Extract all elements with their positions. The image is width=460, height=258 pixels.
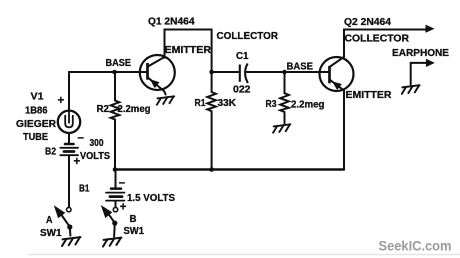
svg-text:BASE: BASE (287, 62, 314, 73)
svg-text:C1: C1 (236, 51, 249, 62)
svg-text:R1: R1 (195, 98, 206, 109)
svg-text:–: – (78, 132, 85, 144)
svg-text:COLLECTOR: COLLECTOR (345, 33, 410, 44)
svg-text:R2: R2 (97, 104, 110, 115)
svg-text:R3: R3 (266, 99, 277, 110)
svg-text:EMITTER: EMITTER (165, 45, 212, 56)
svg-text:2.2meg: 2.2meg (291, 100, 325, 111)
svg-text:SW1: SW1 (124, 226, 145, 237)
svg-text:SeekIC.com: SeekIC.com (379, 237, 452, 253)
svg-text:+: + (74, 156, 81, 168)
svg-text:+: + (120, 201, 127, 213)
svg-text:SW1: SW1 (40, 228, 62, 239)
svg-text:B1: B1 (79, 183, 90, 194)
svg-text:BASE: BASE (106, 58, 132, 69)
svg-text:GIEGER: GIEGER (16, 119, 56, 130)
svg-text:B2: B2 (45, 147, 56, 158)
svg-text:300: 300 (90, 138, 104, 149)
svg-text:Q1 2N464: Q1 2N464 (148, 16, 195, 27)
svg-text:V1: V1 (31, 92, 45, 103)
svg-text:Q2 2N464: Q2 2N464 (344, 17, 392, 28)
svg-text:1B86: 1B86 (25, 105, 48, 116)
svg-text:COLLECTOR: COLLECTOR (217, 31, 279, 42)
svg-text:1.5 VOLTS: 1.5 VOLTS (127, 193, 175, 204)
svg-text:+: + (58, 95, 65, 107)
svg-text:TUBE: TUBE (23, 132, 48, 143)
svg-text:EARPHONE: EARPHONE (392, 48, 449, 59)
svg-text:A: A (46, 215, 53, 226)
svg-text:–: – (119, 177, 126, 189)
svg-text:EMITTER: EMITTER (346, 90, 392, 101)
svg-text:2.2meg: 2.2meg (118, 104, 151, 115)
svg-text:VOLTS: VOLTS (80, 151, 110, 162)
svg-text:33K: 33K (218, 98, 237, 109)
svg-text:022: 022 (233, 85, 251, 96)
svg-text:B: B (130, 214, 137, 225)
